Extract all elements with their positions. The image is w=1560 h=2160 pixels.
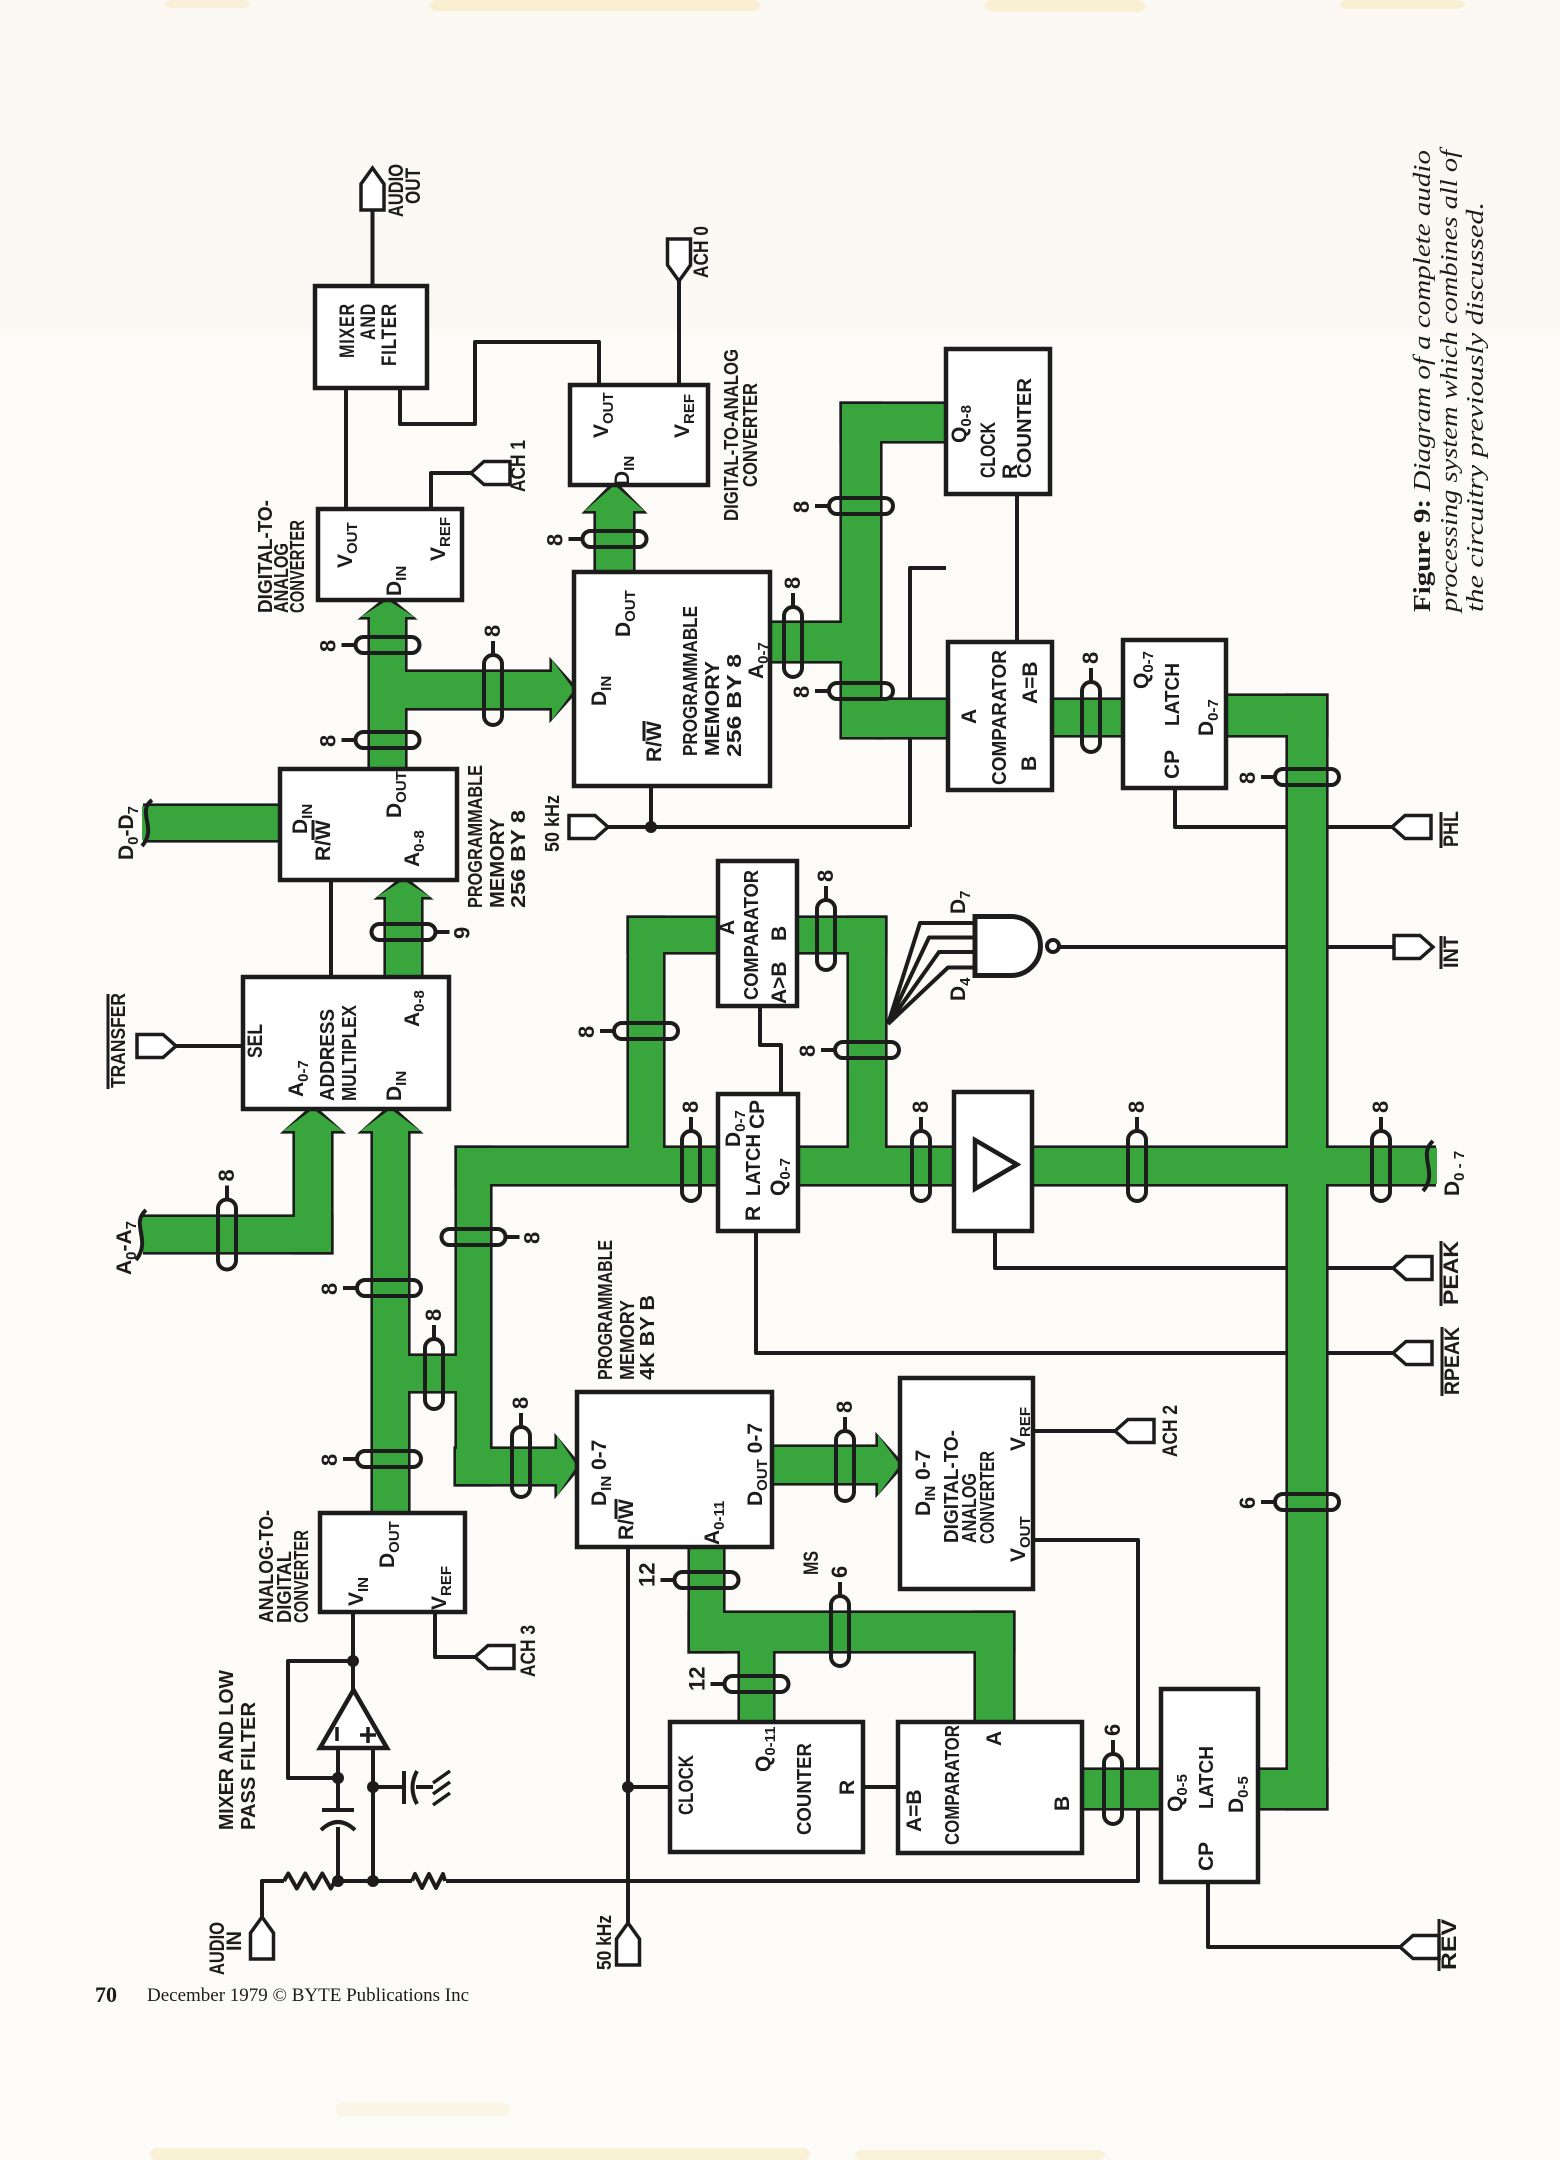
svg-text:50 kHz: 50 kHz	[542, 795, 564, 852]
svg-text:PEAK: PEAK	[1440, 1241, 1463, 1305]
svg-text:R/W: R/W	[312, 820, 335, 861]
svg-text:MEMORY: MEMORY	[617, 1299, 639, 1380]
svg-text:ACH 3: ACH 3	[517, 1625, 540, 1677]
svg-text:MIXER: MIXER	[336, 303, 359, 358]
svg-text:TRANSFER: TRANSFER	[108, 993, 130, 1088]
svg-text:CONVERTER: CONVERTER	[740, 383, 762, 487]
svg-text:CLOCK: CLOCK	[675, 1755, 698, 1815]
svg-text:REV: REV	[1438, 1919, 1461, 1970]
svg-text:6: 6	[827, 1566, 852, 1578]
svg-text:8: 8	[543, 534, 568, 546]
svg-text:A=B: A=B	[903, 1789, 926, 1832]
svg-text:CONVERTER: CONVERTER	[287, 520, 309, 613]
svg-text:6: 6	[1235, 1497, 1260, 1509]
svg-text:8: 8	[317, 1454, 342, 1466]
svg-text:LATCH: LATCH	[1196, 1746, 1218, 1809]
svg-text:8: 8	[795, 1045, 820, 1057]
svg-text:SEL: SEL	[244, 1024, 267, 1058]
svg-text:8: 8	[789, 501, 814, 513]
svg-text:December 1979 © BYTE Publicati: December 1979 © BYTE Publications Inc	[147, 1985, 469, 2006]
svg-text:DIN 0-7: DIN 0-7	[912, 1450, 939, 1516]
svg-text:CP: CP	[1161, 750, 1184, 779]
svg-text:MEMORY: MEMORY	[487, 817, 509, 908]
svg-text:50 kHz: 50 kHz	[594, 1915, 616, 1970]
svg-text:COMPARATOR: COMPARATOR	[989, 649, 1011, 785]
svg-text:A>B: A>B	[768, 961, 791, 1004]
svg-text:8: 8	[317, 1283, 342, 1295]
svg-text:A: A	[983, 1731, 1006, 1746]
svg-text:256 BY 8: 256 BY 8	[508, 810, 530, 908]
svg-text:COMPARATOR: COMPARATOR	[942, 1725, 964, 1845]
svg-text:4K BY B: 4K BY B	[637, 1295, 659, 1380]
svg-text:B: B	[768, 926, 791, 941]
svg-text:8: 8	[316, 640, 341, 652]
svg-text:B: B	[1018, 756, 1041, 771]
svg-text:IN: IN	[223, 1931, 246, 1951]
svg-text:R/W: R/W	[643, 721, 666, 762]
svg-text:12: 12	[685, 1667, 710, 1691]
svg-text:PROGRAMMABLE: PROGRAMMABLE	[680, 606, 702, 756]
svg-text:8: 8	[214, 1169, 239, 1181]
svg-text:FILTER: FILTER	[378, 303, 401, 366]
svg-text:ACH 2: ACH 2	[1159, 1405, 1182, 1457]
svg-text:COMPARATOR: COMPARATOR	[741, 869, 763, 1000]
svg-text:A: A	[716, 920, 739, 935]
svg-text:MIXER AND LOW: MIXER AND LOW	[216, 1670, 238, 1830]
svg-text:PROGRAMMABLE: PROGRAMMABLE	[595, 1240, 617, 1380]
svg-text:PHL: PHL	[1440, 811, 1463, 847]
svg-text:8: 8	[908, 1101, 933, 1113]
svg-text:8: 8	[789, 686, 814, 698]
svg-text:OUT: OUT	[402, 168, 425, 204]
svg-text:MS: MS	[800, 1551, 823, 1575]
svg-text:processing system which combin: processing system which combines all of	[1437, 146, 1463, 614]
svg-text:LATCH: LATCH	[1162, 663, 1184, 726]
svg-text:B: B	[1051, 1796, 1074, 1811]
svg-text:8: 8	[1235, 772, 1260, 784]
svg-text:70: 70	[95, 1982, 117, 2007]
svg-text:8: 8	[1368, 1101, 1393, 1113]
svg-text:ACH 1: ACH 1	[507, 440, 530, 492]
svg-text:9: 9	[450, 927, 475, 939]
svg-text:A: A	[958, 709, 981, 724]
svg-text:8: 8	[813, 870, 838, 882]
svg-text:PROGRAMMABLE: PROGRAMMABLE	[465, 765, 487, 908]
svg-text:AND: AND	[357, 303, 380, 340]
svg-text:8: 8	[508, 1397, 533, 1409]
svg-text:8: 8	[316, 735, 341, 747]
svg-text:CONVERTER: CONVERTER	[977, 1451, 999, 1544]
svg-text:ACH 0: ACH 0	[690, 226, 713, 278]
svg-text:Figure 9: Diagram of a complet: Figure 9: Diagram of a complete audio	[1410, 150, 1436, 612]
svg-text:PASS FILTER: PASS FILTER	[238, 1701, 260, 1830]
svg-text:COUNTER: COUNTER	[794, 1742, 816, 1835]
svg-text:R/W: R/W	[615, 1499, 638, 1540]
svg-text:6: 6	[1100, 1724, 1125, 1736]
svg-text:DIN 0-7: DIN 0-7	[588, 1440, 615, 1506]
svg-text:8: 8	[678, 1101, 703, 1113]
svg-text:CLOCK: CLOCK	[977, 422, 1000, 478]
svg-text:8: 8	[1124, 1101, 1149, 1113]
svg-text:A=B: A=B	[1019, 661, 1042, 704]
svg-text:R: R	[742, 1206, 765, 1221]
svg-text:the circuitry previously discu: the circuitry previously discussed.	[1463, 202, 1489, 612]
svg-text:8: 8	[480, 625, 505, 637]
svg-text:INT: INT	[1440, 936, 1463, 968]
svg-text:CP: CP	[746, 1100, 769, 1129]
svg-text:CP: CP	[1195, 1842, 1218, 1871]
svg-text:8: 8	[780, 577, 805, 589]
svg-text:12: 12	[635, 1563, 660, 1587]
svg-text:MULTIPLEX: MULTIPLEX	[339, 1004, 361, 1101]
svg-text:RPEAK: RPEAK	[1441, 1327, 1464, 1395]
svg-text:8: 8	[520, 1232, 545, 1244]
svg-text:LATCH: LATCH	[743, 1134, 765, 1196]
svg-text:256 BY 8: 256 BY 8	[724, 654, 746, 757]
svg-text:8: 8	[421, 1309, 446, 1321]
svg-text:ADDRESS: ADDRESS	[317, 1009, 339, 1101]
svg-text:COUNTER: COUNTER	[1014, 377, 1036, 478]
svg-text:8: 8	[1078, 652, 1103, 664]
svg-text:MEMORY: MEMORY	[702, 660, 724, 756]
svg-text:R: R	[836, 1780, 859, 1795]
svg-text:8: 8	[832, 1401, 857, 1413]
svg-text:CONVERTER: CONVERTER	[291, 1530, 313, 1623]
svg-text:8: 8	[574, 1026, 599, 1038]
